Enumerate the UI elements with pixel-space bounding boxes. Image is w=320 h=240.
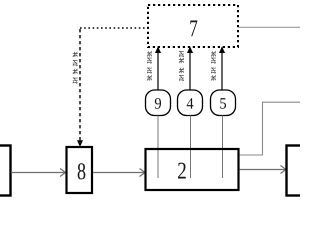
sensor 5 (211, 90, 236, 116)
sensor 4 (178, 90, 203, 116)
text 信号 line1 (147, 51, 152, 56)
text 控制信号 (rotated mini glyphs) (73, 52, 78, 57)
gray probe line 1 into box 2 (157, 116, 159, 179)
right block (partial) (287, 146, 307, 196)
arrow 2 to right block (240, 166, 287, 174)
box 2 (146, 149, 239, 190)
box 8 (67, 147, 93, 193)
dotted control line horizontal (80, 27, 147, 29)
label 7 (190, 20, 197, 36)
gray elbow line from box2 up to right edge (240, 102, 301, 155)
arrow left block to 8 (11, 169, 66, 177)
arrow 8 to 2 (93, 169, 145, 177)
text 信号 line2 (179, 51, 184, 57)
controller box 7 (dotted) (148, 5, 238, 47)
signal line 3 (sensor 5 to controller) (221, 50, 223, 90)
arrowhead into box 8 (77, 140, 83, 147)
left block (partial) (0, 146, 11, 196)
signal line 1 (sensor 9 to controller) (157, 50, 159, 90)
text 信号 line3 (211, 51, 216, 56)
gray probe line 3 into box 2 (222, 116, 224, 179)
sensor 9 (146, 90, 171, 116)
gray line from box 7 to right edge (239, 26, 300, 28)
signal line 2 (sensor 4 to controller) (189, 50, 191, 90)
dashed control line vertical (79, 29, 81, 141)
gray probe line 2 into box 2 (190, 116, 192, 179)
